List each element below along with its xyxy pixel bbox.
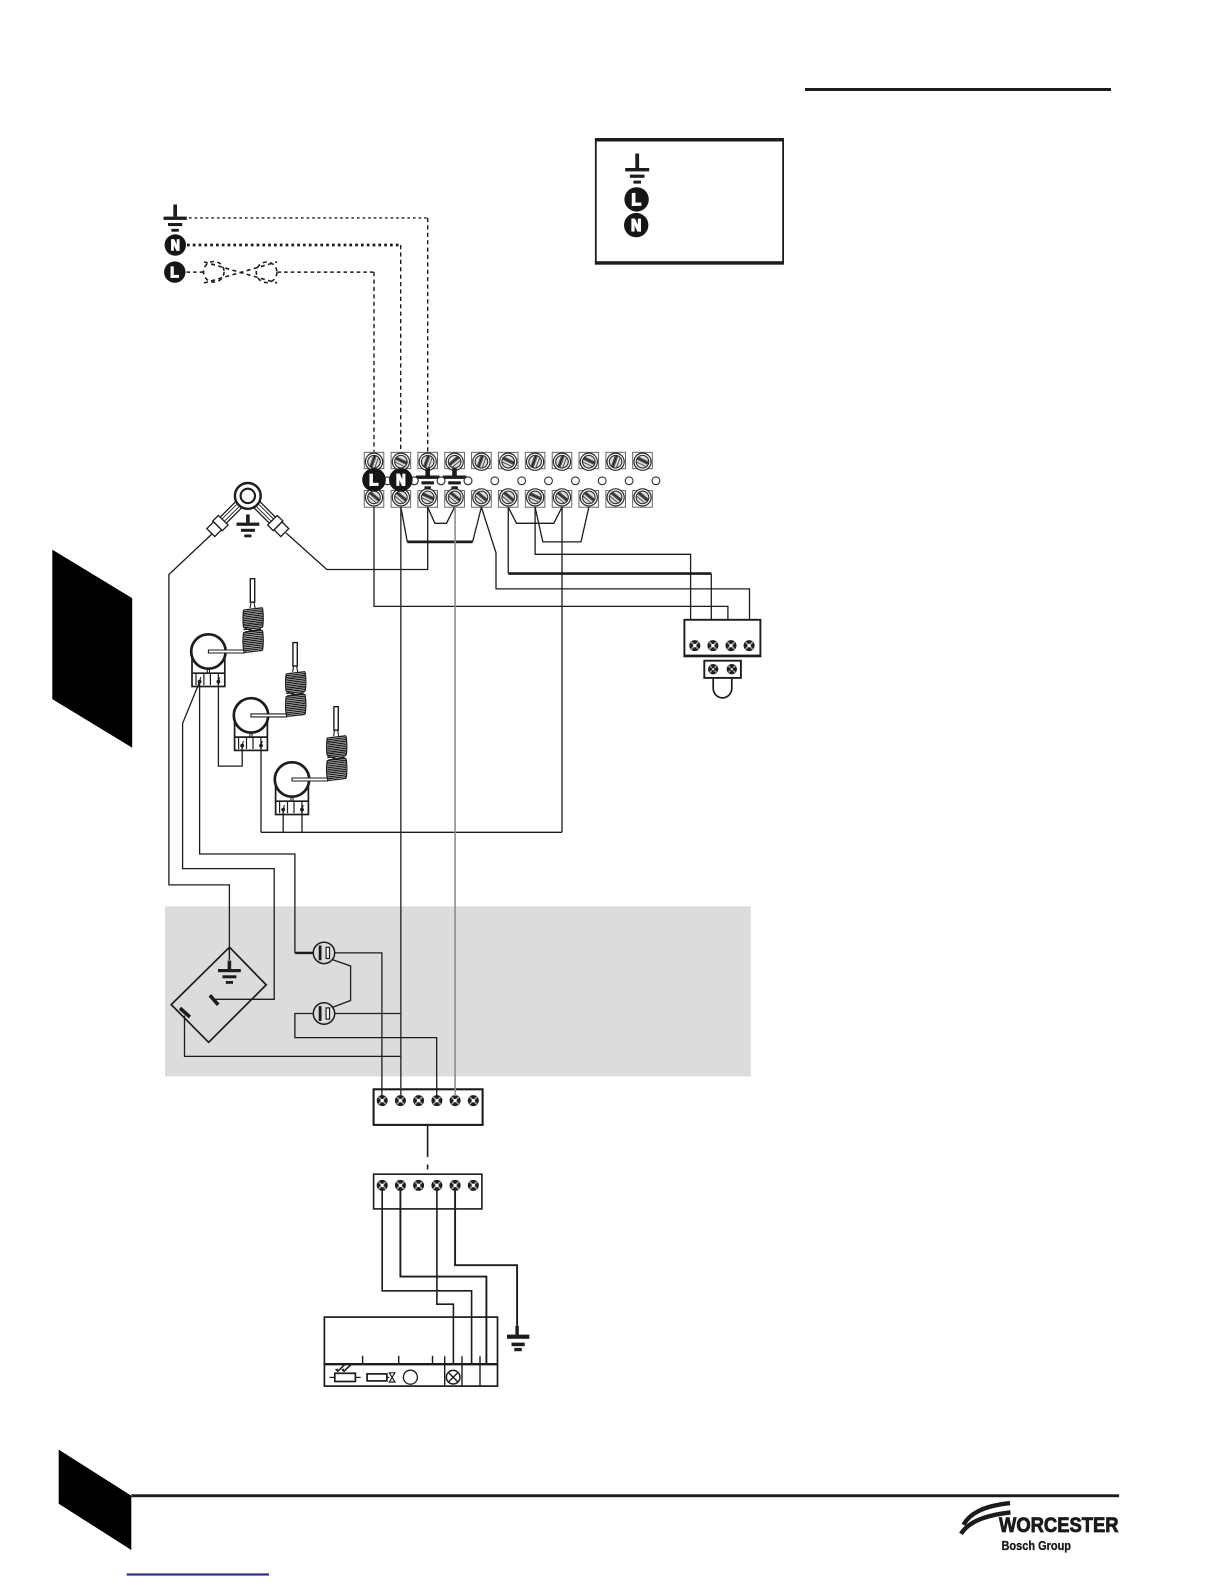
svg-text:WORCESTER: WORCESTER [999, 1513, 1119, 1537]
svg-text:Bosch Group: Bosch Group [1002, 1538, 1072, 1553]
